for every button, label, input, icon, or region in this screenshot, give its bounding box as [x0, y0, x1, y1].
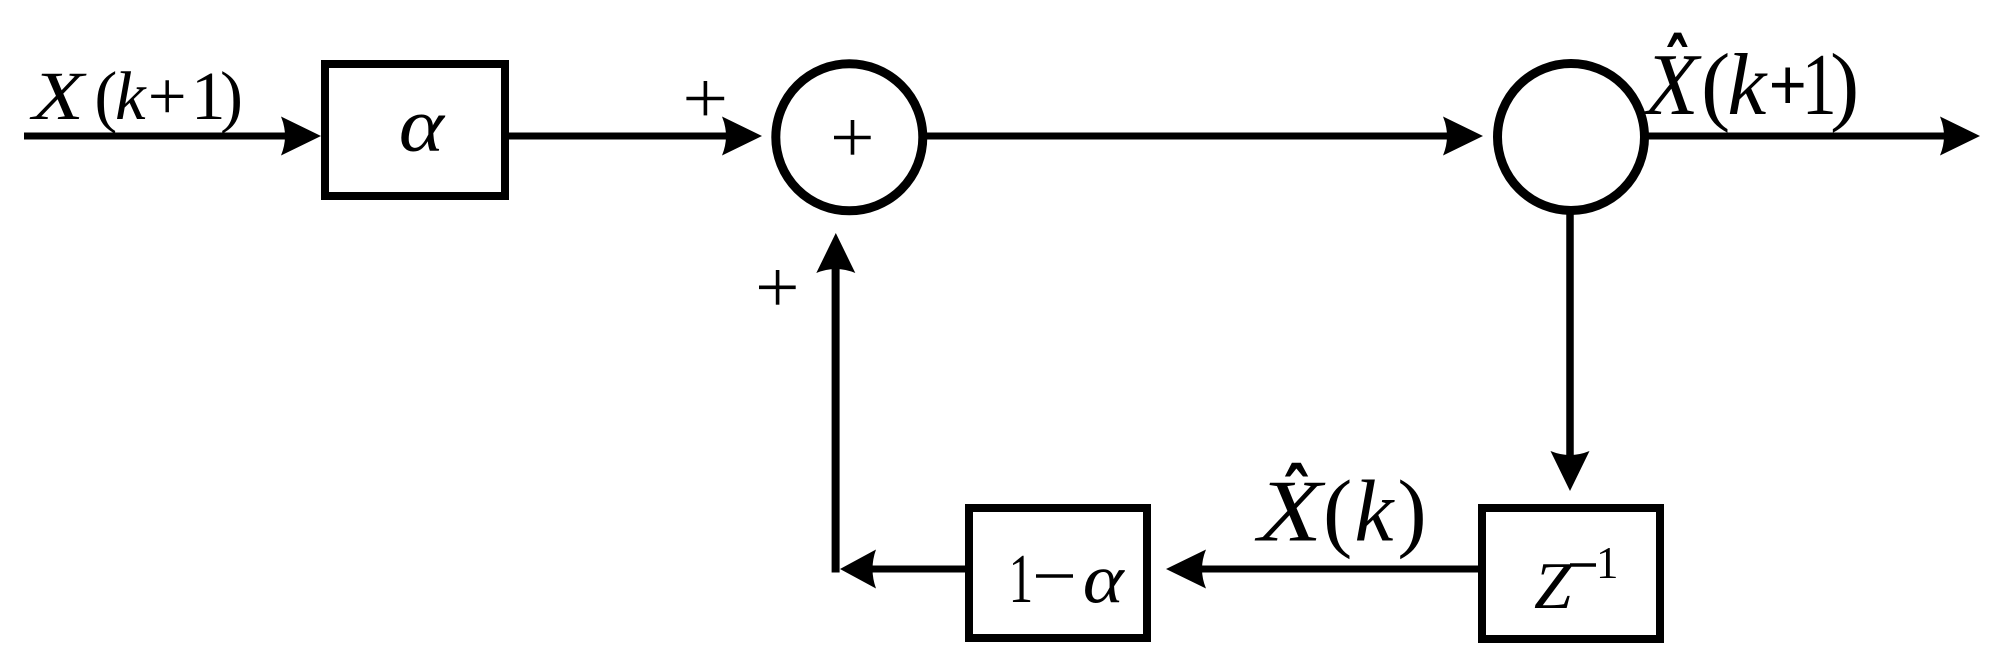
svg-text:α: α [1083, 541, 1126, 618]
wire: output line [1645, 133, 1954, 140]
box 1-alpha (gain block) [969, 508, 1147, 638]
plus inside summer [834, 120, 871, 155]
arrowhead at feedback corner [840, 550, 876, 589]
arrowhead into Z box [1551, 451, 1590, 491]
arrowhead into alpha box [281, 117, 321, 156]
wire: summer to output node [927, 133, 1457, 140]
arrowhead into summing junction [722, 117, 762, 156]
box Z^-1 (delay block) [1482, 508, 1660, 639]
value label 1-alpha [1009, 541, 1126, 619]
wire: alpha box to summing junction [509, 133, 737, 140]
svg-text:X: X [29, 57, 87, 134]
wire: 1-alpha box to corner [867, 566, 965, 573]
svg-text:(k+1): (k+1) [94, 58, 243, 134]
svg-text:Z: Z [1534, 549, 1572, 623]
output node circle [1498, 64, 1645, 211]
arrowhead into output node circle [1443, 117, 1483, 156]
wire: Z box to 1-alpha box [1192, 566, 1478, 573]
wire: corner up to summer [832, 258, 840, 573]
summing junction [776, 64, 923, 211]
output arrowhead [1940, 117, 1980, 156]
plus sign at summer input [686, 81, 724, 115]
svg-text:(k): (k) [1323, 463, 1427, 560]
arrowhead into 1-alpha box [1166, 550, 1206, 589]
node Xhat(k+1) output label [1642, 33, 1859, 134]
svg-text:1: 1 [1596, 538, 1619, 588]
label Z^-1 [1534, 538, 1619, 623]
svg-text:1: 1 [1009, 541, 1033, 619]
svg-text:X: X [1254, 462, 1327, 559]
plus sign at feedback input [759, 270, 796, 305]
hat over feedback X [1285, 463, 1308, 477]
node Xhat(k) feedback label [1254, 462, 1427, 560]
svg-text:α: α [399, 84, 446, 168]
node X(k+1) input label [29, 57, 243, 134]
hat over output X [1667, 33, 1688, 47]
wire: input line into alpha box [24, 133, 296, 140]
wire: node down to Z box [1566, 211, 1574, 462]
box alpha (gain block) [325, 64, 505, 196]
svg-text:1: 1 [1802, 37, 1837, 134]
arrowhead into summer bottom [816, 233, 855, 273]
